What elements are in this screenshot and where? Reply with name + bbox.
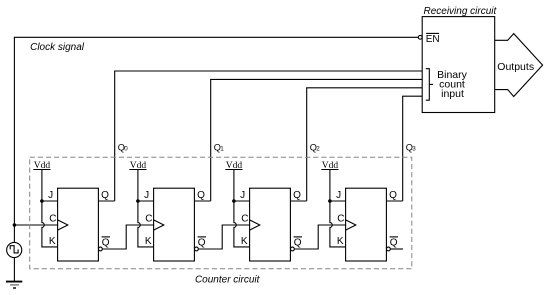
svg-text:K: K <box>337 236 344 247</box>
svg-text:input: input <box>441 88 464 100</box>
svg-text:Q: Q <box>389 190 397 201</box>
wire: FF2 Vdd rail with hop over C wire <box>138 170 140 247</box>
wire: FF2 K input <box>137 246 153 248</box>
pin label: Binary count input <box>437 69 468 100</box>
outputs arrow <box>495 34 543 97</box>
svg-text:C: C <box>241 214 248 225</box>
pin: FF3 Qbar bubble <box>291 247 295 251</box>
node: FF3 J junction dot <box>232 199 236 203</box>
wire: clock source to ground <box>13 258 15 282</box>
bracket: binary input group brace <box>426 69 433 101</box>
svg-text:Q: Q <box>198 238 206 249</box>
svg-text:EN: EN <box>426 34 440 45</box>
wire: FF1 J input <box>42 200 58 202</box>
svg-text:2: 2 <box>316 146 320 153</box>
wire: Q3 bus horizontal to receiving circuit <box>402 95 422 97</box>
svg-text:C: C <box>49 214 56 225</box>
clock edge wedge FF2 <box>154 220 164 230</box>
wire: FF1 K input <box>41 246 57 248</box>
wire: FF1 Qbar to FF2 C input <box>102 225 153 249</box>
wire: FF1 Q output <box>98 200 114 202</box>
power Vdd label FF4 <box>321 161 338 171</box>
wire: FF1 Vdd rail with hop over C wire <box>42 170 44 247</box>
svg-text:K: K <box>241 236 248 247</box>
wire: FF3 Qbar to FF4 C input <box>294 225 345 249</box>
pin: FF2 Qbar bubble <box>195 247 199 251</box>
power Vdd label FF3 <box>225 161 242 171</box>
clock edge wedge FF3 <box>250 220 260 230</box>
wire: FF4 J input <box>330 200 346 202</box>
wire: Q1 vertical riser <box>210 79 212 201</box>
pin label: EN (active low) <box>426 33 440 45</box>
pin label: FF1 Qbar <box>102 237 110 249</box>
svg-text:Receiving circuit: Receiving circuit <box>423 6 497 17</box>
wire: FF2 J input <box>138 200 154 202</box>
node: FF1 J junction dot <box>40 199 44 203</box>
pin label: FF3 Qbar <box>294 237 302 249</box>
clock edge wedge FF4 <box>346 220 356 230</box>
svg-text:Q: Q <box>390 238 398 249</box>
svg-text:J: J <box>336 190 341 201</box>
power Vdd label FF2 <box>129 161 146 171</box>
wire: FF3 J input <box>234 200 250 202</box>
power Vdd label FF1 <box>33 161 50 171</box>
svg-text:J: J <box>48 190 53 201</box>
flip-flop FF2 box <box>154 188 195 261</box>
node label: Q3 <box>406 142 417 152</box>
svg-text:1: 1 <box>220 146 224 153</box>
clock edge wedge FF1 <box>58 220 68 230</box>
svg-text:C: C <box>145 214 152 225</box>
pin label: FF2 Qbar <box>198 237 206 249</box>
pin: FF1 Qbar bubble <box>99 247 103 251</box>
wire: FF4 Q output <box>386 200 402 202</box>
svg-text:Q: Q <box>293 190 301 201</box>
flip-flop FF4 box <box>346 188 387 261</box>
svg-text:Outputs: Outputs <box>497 61 534 73</box>
wire: Q1 bus horizontal to receiving circuit <box>210 78 422 80</box>
wire: FF3 Vdd rail with hop over C wire <box>234 170 236 247</box>
wire: Q2 vertical riser <box>306 88 308 201</box>
pin label: FF4 Qbar <box>390 237 398 249</box>
node label: Q1 <box>214 142 225 152</box>
svg-text:J: J <box>144 190 149 201</box>
svg-text:0: 0 <box>124 146 128 153</box>
svg-text:J: J <box>240 190 245 201</box>
node: clock / FF1-C junction dot <box>13 223 17 227</box>
svg-text:3: 3 <box>412 146 416 153</box>
wire: FF2 Qbar to FF3 C input <box>198 225 249 249</box>
node: FF2 J junction dot <box>136 199 140 203</box>
wire: clock to FF1 C input <box>14 224 57 226</box>
ground <box>6 282 22 288</box>
wire: FF4 Qbar stub <box>390 248 403 250</box>
svg-text:Q: Q <box>197 190 205 201</box>
flip-flop FF1 box <box>58 188 99 261</box>
svg-text:Counter circuit: Counter circuit <box>195 275 261 286</box>
wire: FF3 Q output <box>290 200 306 202</box>
node: FF4 J junction dot <box>328 199 332 203</box>
wire: Q0 bus horizontal to receiving circuit <box>114 70 422 72</box>
node label: Q2 <box>310 142 321 152</box>
svg-text:Q: Q <box>101 190 109 201</box>
flip-flop FF3 box <box>250 188 291 261</box>
wire: clock top horizontal (clock source to EN) <box>14 36 419 38</box>
wire: FF4 Vdd rail with hop over C wire <box>330 170 332 247</box>
wire: Q3 vertical riser <box>402 96 404 201</box>
svg-text:C: C <box>337 214 344 225</box>
pin: EN active-low bubble <box>418 35 422 39</box>
receiving circuit U1 box <box>422 17 495 113</box>
clock source CLK1 (square-wave generator) <box>7 242 22 257</box>
pin: FF4 Qbar bubble <box>387 247 391 251</box>
wire: FF2 Q output <box>194 200 210 202</box>
counter circuit dashed enclosure <box>30 157 412 269</box>
wire: FF3 K input <box>233 246 249 248</box>
wire: Q2 bus horizontal to receiving circuit <box>306 87 422 89</box>
wire: clock left vertical <box>13 37 15 242</box>
svg-text:Clock signal: Clock signal <box>30 42 85 53</box>
svg-text:Q: Q <box>102 238 110 249</box>
wire: Q0 vertical riser <box>114 71 116 201</box>
node label: Q0 <box>118 142 129 152</box>
svg-text:Q: Q <box>294 238 302 249</box>
svg-text:K: K <box>145 236 152 247</box>
wire: FF4 K input <box>329 246 345 248</box>
svg-text:K: K <box>49 236 56 247</box>
